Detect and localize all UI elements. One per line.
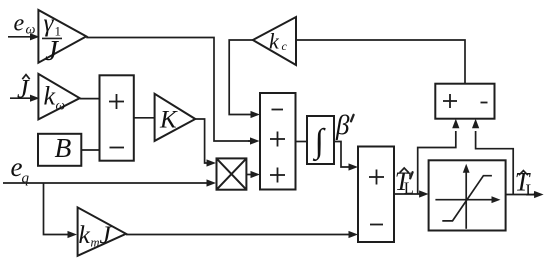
x-axis (435, 199, 496, 201)
svg-text:K: K (159, 107, 178, 134)
svg-text:q: q (22, 171, 30, 187)
wire branch T_L up to minus of summer4 (472, 119, 513, 195)
y-axis (465, 168, 467, 229)
svg-text:β: β (335, 110, 350, 140)
wire K output to multiplier upper input (195, 119, 216, 167)
wire summer4 output up and left to k_c input (296, 40, 465, 84)
svg-text:k: k (269, 29, 280, 54)
svg-text:k: k (44, 82, 56, 111)
wire summer1 output to K (134, 117, 155, 119)
wire J-hat input arrow (10, 95, 40, 102)
saturation block (429, 160, 506, 230)
wire k_omega output to summer1 (80, 98, 100, 100)
wire from gamma1/J output to plus input of error summer (86, 38, 259, 145)
gain block k_m J (triangle) (78, 207, 126, 255)
gain block k_c (left-pointing triangle) (253, 17, 296, 65)
svg-text:k: k (79, 220, 91, 249)
summer2 box (-, +, +) (260, 93, 296, 190)
summer3 box (+ top, - bottom) (358, 147, 394, 243)
node T-hat-L output label (515, 168, 536, 200)
saturation curve (442, 176, 492, 221)
svg-text:L: L (526, 181, 536, 200)
wire integrator output to summer3 plus input (334, 142, 358, 171)
block B (38, 132, 81, 166)
wire e_q branch down to k_mJ (44, 183, 78, 238)
wire summer3 output to saturation block (394, 190, 429, 197)
svg-text:J: J (45, 35, 59, 67)
wire multiplier output to summer2 lower plus (246, 171, 260, 178)
svg-text:e: e (14, 11, 25, 37)
node e_omega label (14, 11, 36, 38)
svg-text:ω: ω (26, 23, 36, 38)
wire e_omega input arrow (8, 33, 40, 40)
wire summer2 output to integrator (296, 141, 308, 143)
wire e_q long line into multiplier lower input (3, 179, 216, 186)
svg-text:ω: ω (56, 98, 66, 113)
svg-text:m: m (91, 236, 100, 250)
wire branch T_L-prime up to plus of summer4 (418, 119, 460, 194)
multiplier block (box with X) (217, 158, 247, 189)
svg-text:B: B (55, 132, 72, 163)
wire B output to summer1 (81, 149, 99, 151)
wire saturation output with final arrow (506, 191, 544, 198)
node beta-prime label (335, 110, 354, 140)
svg-text:γ: γ (44, 10, 55, 37)
wire k_mJ output to minus input of summer3 (126, 231, 358, 238)
node J-hat label (17, 75, 30, 104)
gain block gamma1/J (triangle) (38, 10, 86, 67)
wire k_c output down to minus input of summer2 (229, 40, 260, 118)
node e_q label (11, 152, 30, 187)
integrator block (307, 116, 334, 164)
summer1 box (+ top, - bottom) (100, 75, 134, 160)
summer4 box (+ -) top right (435, 84, 494, 119)
svg-text:J: J (100, 220, 113, 249)
svg-text:c: c (282, 39, 288, 53)
node T-hat-L-prime label (395, 167, 414, 198)
gain block K (triangle) (155, 94, 196, 141)
gain block k_omega (triangle) (38, 74, 79, 120)
